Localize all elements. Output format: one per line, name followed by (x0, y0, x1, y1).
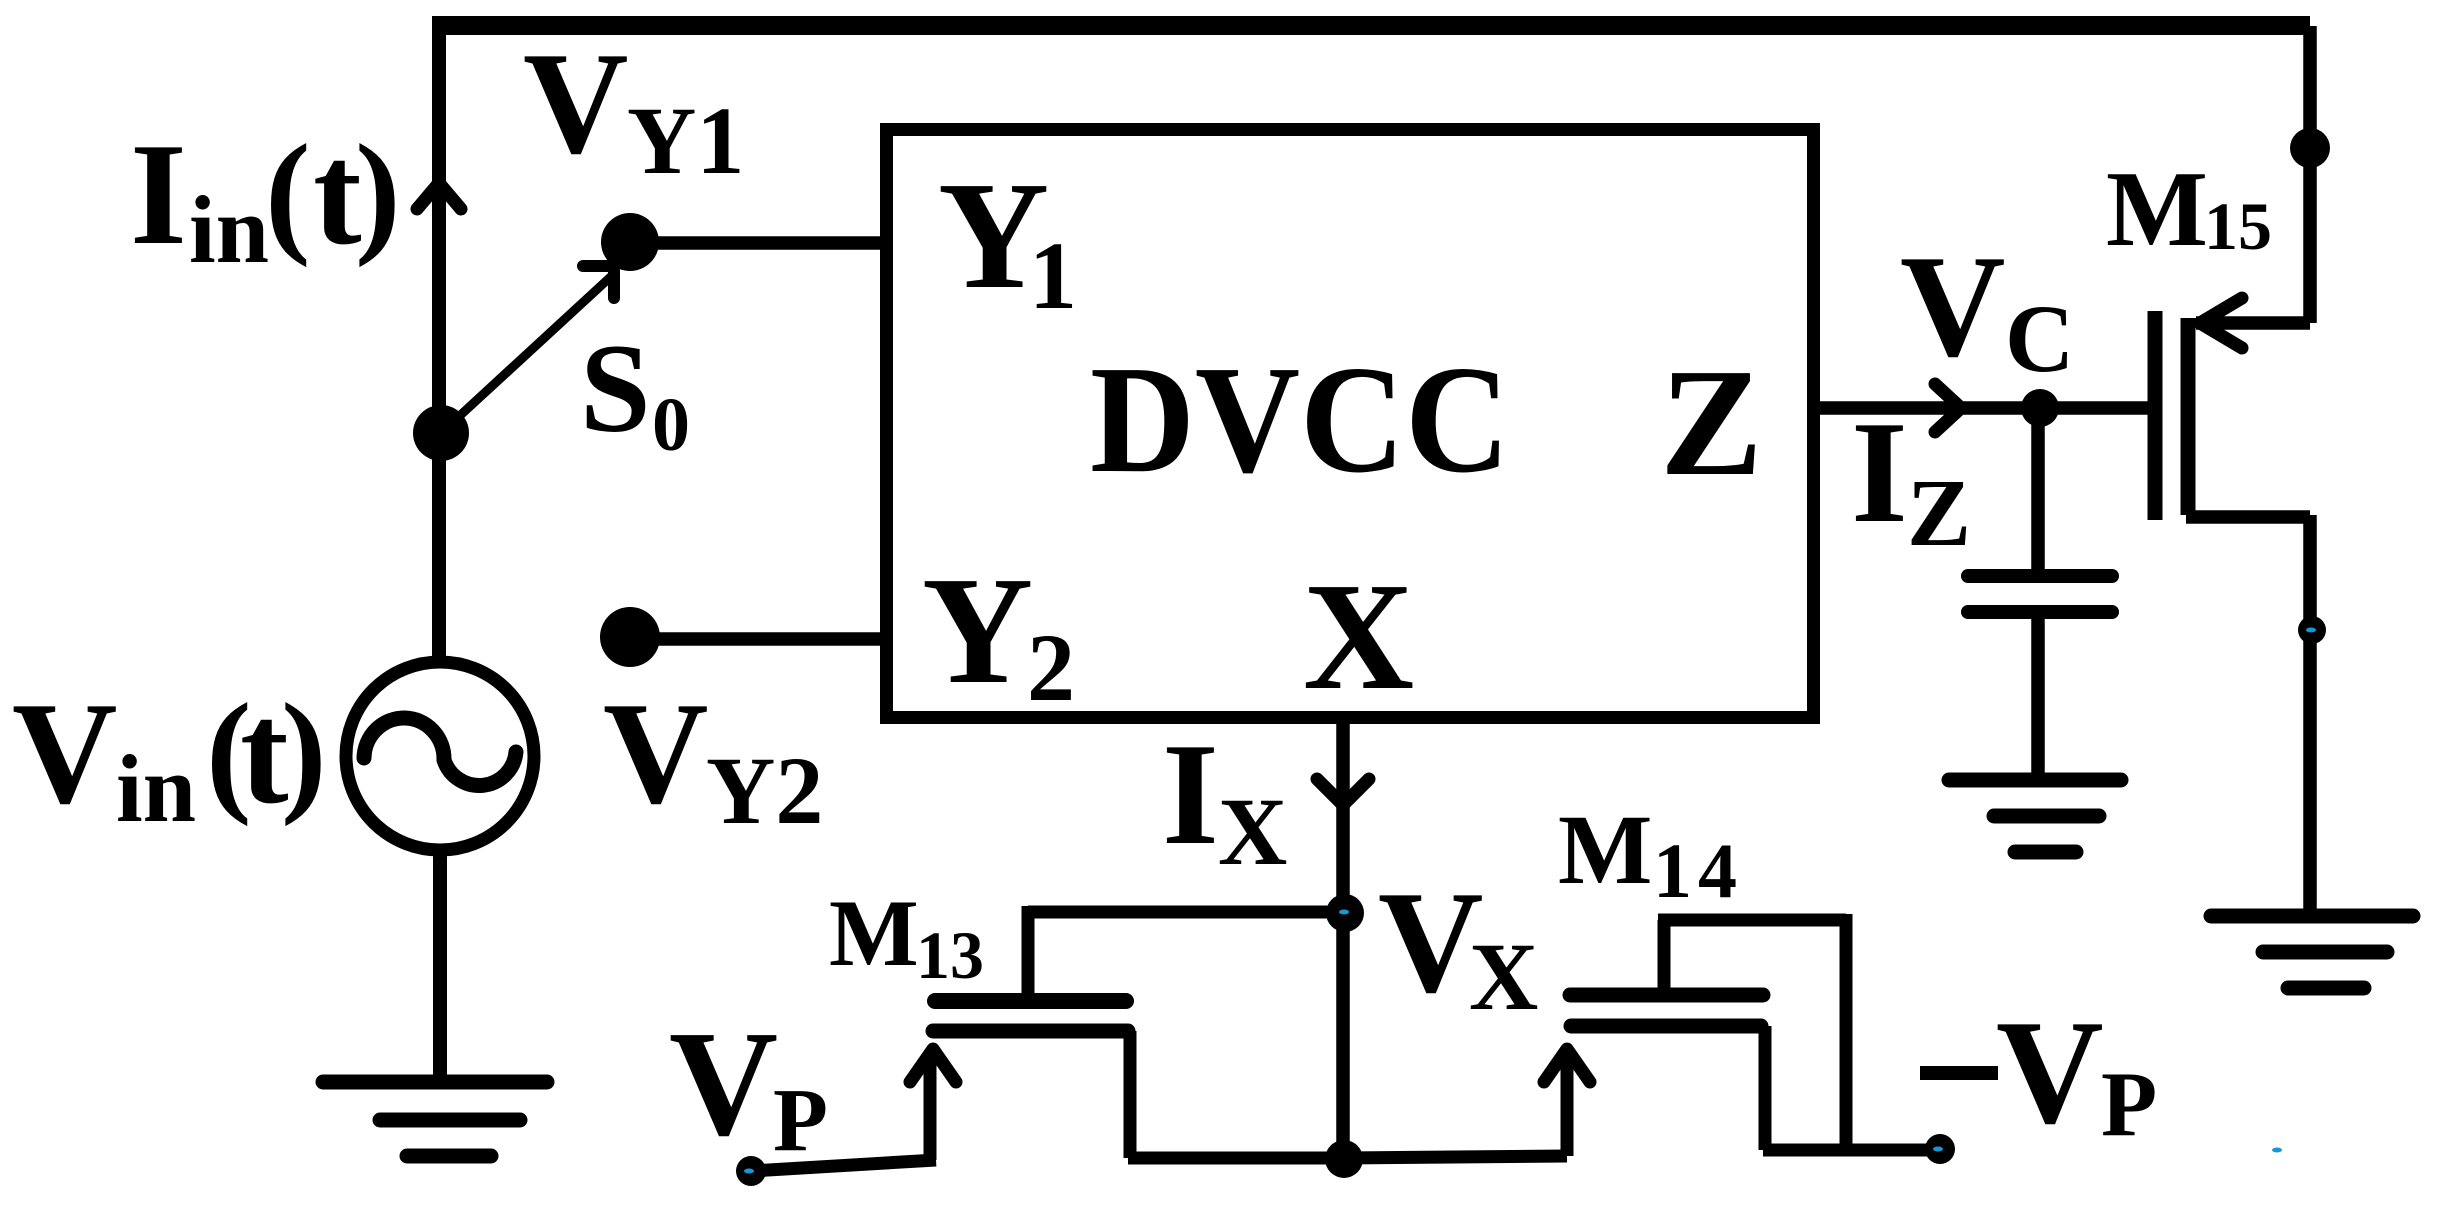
transistor M14 channel bar (1570, 988, 1763, 1003)
transistor M14 source step (1759, 1026, 1772, 1150)
svg-text:in: in (116, 735, 196, 842)
DVCC block U1 (887, 130, 1814, 718)
label VY2 (603, 672, 823, 844)
svg-text:V: V (1996, 990, 2104, 1155)
switch S0 arrowhead (583, 266, 614, 298)
node -Vp terminal center mark (1933, 1147, 1943, 1152)
node: switch pivot junction (413, 405, 469, 461)
svg-text:I: I (1851, 391, 1908, 553)
wire: Vp terminal to M13 gate riser (751, 1160, 936, 1171)
node: top-right junction (2290, 128, 2330, 168)
node: Vx (1326, 894, 1364, 932)
arrow: Ix current direction (1317, 779, 1369, 805)
label -Vp (1996, 990, 2157, 1155)
ground (below capacitor) (1949, 780, 2121, 852)
transistor M14 gate tie horizontal (1658, 914, 1846, 927)
svg-text:P: P (2101, 1053, 2157, 1155)
svg-text:V: V (1900, 225, 2005, 387)
svg-text:15: 15 (2204, 188, 2272, 264)
svg-text:): ) (281, 675, 327, 827)
node: -Vp terminal (1925, 1134, 1955, 1164)
label M15 (2106, 150, 2272, 269)
svg-text:Y1: Y1 (627, 87, 744, 194)
node stray terminal mark right margin (2272, 1148, 2282, 1153)
wire: M13 source rail to X node (1128, 1152, 1345, 1165)
label M14 (1558, 794, 1743, 914)
transistor M13 drain step (1022, 906, 1035, 1000)
svg-text:I: I (130, 113, 187, 275)
capacitor C1 plates (1968, 576, 2112, 612)
node: bottom rail junction (1325, 1140, 1363, 1178)
transistor M14 gate tie down to source rail (1840, 914, 1853, 1150)
arrow: Iin current direction (417, 183, 461, 209)
svg-text:V: V (523, 22, 628, 184)
node: M15 source wire junction (2298, 616, 2326, 644)
label Vin(t) (12, 672, 327, 842)
transistor M14 gate tie vertical (1658, 920, 1671, 995)
svg-text:X: X (1303, 552, 1414, 722)
wire: M14 source rail to -Vp terminal (1763, 1144, 1938, 1157)
transistor M15 gate arrow (2200, 298, 2242, 348)
wire: Y1 lead from switch to DVCC (630, 236, 885, 250)
svg-text:X: X (1469, 923, 1538, 1030)
svg-text:13: 13 (916, 917, 984, 993)
svg-text:2: 2 (1027, 614, 1075, 721)
pin label Y1 (938, 151, 1077, 329)
svg-text:Y: Y (922, 546, 1033, 716)
wire: Vin source bottom to ground (433, 849, 447, 1082)
node: Vp terminal (736, 1156, 766, 1186)
node: VY2 terminal (600, 607, 660, 667)
wire: left input vertical (Iin branch) (432, 18, 446, 662)
arrow: Iz current direction (1935, 384, 1961, 432)
transistor M14 gate riser (1561, 1056, 1574, 1156)
wire: Z output lead (1818, 401, 2150, 415)
switch S0 blade (441, 271, 617, 433)
svg-text:1: 1 (1029, 222, 1077, 329)
transistor M13 source step (1124, 1031, 1137, 1158)
wire: top feedback rail (432, 16, 2310, 35)
label Vx (1378, 861, 1538, 1030)
transistor M13 channel bar (935, 993, 1126, 1009)
transistor M14 gate arrow (1544, 1049, 1590, 1082)
label S0 (580, 319, 690, 467)
voltage source sine symbol (364, 718, 516, 786)
voltage source Vin circle (346, 662, 534, 850)
wire: Y2 lead to DVCC (630, 632, 885, 646)
pin label Y2 (922, 546, 1075, 721)
svg-text:14: 14 (1653, 827, 1743, 914)
label Iz (1851, 391, 1971, 566)
label Ix (1162, 713, 1287, 885)
transistor M13 gate riser (924, 1056, 937, 1160)
svg-text:C: C (2005, 285, 2074, 392)
transistor M15 source lead (2186, 510, 2310, 524)
svg-text:(: ( (265, 116, 311, 268)
transistor M13 drain lead from Vx (1028, 906, 1345, 919)
ground (below Vin source) (323, 1082, 547, 1156)
transistor M15 drain lead (2196, 316, 2310, 330)
transistor M13 gate arrow (910, 1049, 956, 1082)
svg-text:M: M (2106, 150, 2208, 269)
wire: X node to M14 gate riser (1344, 1156, 1567, 1158)
label -Vp minus sign (1920, 1066, 1998, 1080)
svg-text:V: V (669, 999, 778, 1167)
label M13 (829, 880, 984, 993)
transistor M15 gate bar (2148, 311, 2163, 520)
node: switch throw / VY1 terminal (601, 213, 659, 271)
wire: Vc node to capacitor (2031, 408, 2045, 572)
label Iin(t) (130, 113, 401, 283)
transistor M15 channel bar (2181, 318, 2196, 515)
svg-text:S: S (580, 319, 651, 459)
node: Vc (2021, 389, 2059, 427)
ground (below M15 source) (2211, 916, 2413, 988)
svg-text:I: I (1162, 713, 1219, 875)
svg-text:X: X (1218, 778, 1287, 885)
svg-text:V: V (603, 672, 708, 834)
transistor M14 gate bar (1571, 1019, 1761, 1034)
svg-text:Y2: Y2 (706, 737, 823, 844)
label Vc (1900, 225, 2074, 392)
transistor M13 gate bar (933, 1024, 1128, 1039)
svg-text:in: in (189, 176, 269, 283)
svg-text:0: 0 (652, 383, 690, 467)
svg-text:M: M (1558, 794, 1652, 905)
wire: M15 source down to ground (2303, 515, 2317, 916)
wire: capacitor to ground (2031, 614, 2045, 782)
svg-text:DVCC: DVCC (1090, 335, 1510, 505)
svg-text:P: P (773, 1071, 828, 1170)
node Vx center mark (1339, 910, 1349, 915)
svg-text:M: M (829, 880, 919, 986)
svg-text:Z: Z (1660, 338, 1763, 508)
node M15 source wire center mark (2306, 628, 2316, 633)
node Vp terminal center mark (744, 1169, 754, 1174)
svg-text:V: V (1378, 861, 1483, 1023)
svg-text:Z: Z (1907, 459, 1971, 566)
wire: X lead down from DVCC (1336, 722, 1350, 1160)
wire: right vertical from top rail to M15 drain (2303, 26, 2317, 323)
label VY1 (523, 22, 744, 194)
svg-text:): ) (355, 116, 401, 268)
svg-text:V: V (12, 672, 117, 834)
label Vp (669, 999, 828, 1170)
